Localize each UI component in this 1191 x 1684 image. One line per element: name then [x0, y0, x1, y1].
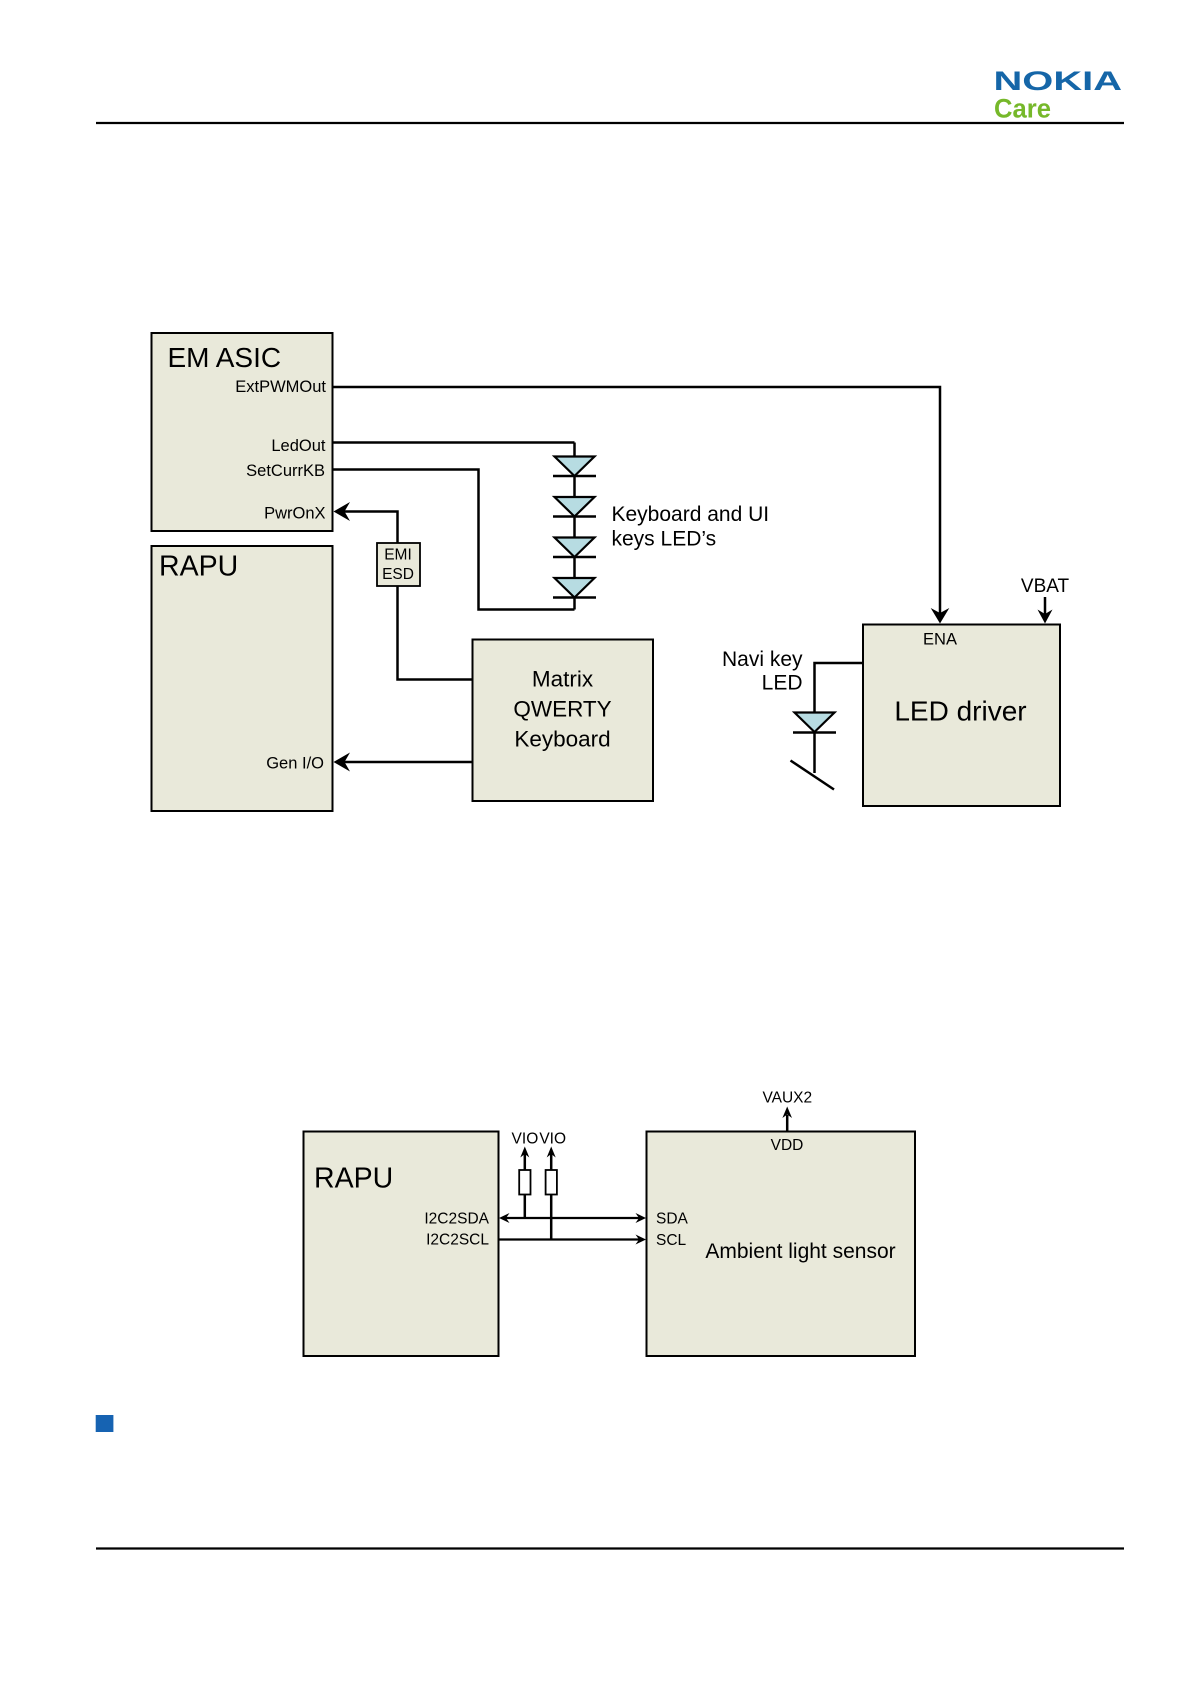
- svg-text:Navi key: Navi key: [722, 648, 803, 671]
- wire SDA bus: [499, 1213, 646, 1223]
- LED D3: [553, 538, 596, 558]
- wire keyboard to Gen I/O: [334, 753, 473, 772]
- svg-text:RAPU: RAPU: [314, 1163, 393, 1195]
- wire LedOut to LED chain: [333, 441, 575, 444]
- LED D1: [553, 457, 596, 477]
- wire SCL bus: [499, 1235, 647, 1245]
- svg-text:LedOut: LedOut: [271, 437, 326, 455]
- svg-text:Ambient light sensor: Ambient light sensor: [705, 1240, 895, 1263]
- svg-text:EM ASIC: EM ASIC: [168, 342, 282, 373]
- section bullet: [96, 1415, 114, 1432]
- block Ambient light sensor: [647, 1132, 916, 1357]
- wire PwrOnX from EMI ESD: [334, 502, 398, 543]
- wire ExtPWMOut to LED driver ENA: [333, 387, 950, 624]
- LED D4: [553, 578, 596, 598]
- svg-text:SetCurrKB: SetCurrKB: [246, 462, 325, 480]
- svg-text:SDA: SDA: [656, 1211, 689, 1228]
- footer rule: [96, 1547, 1124, 1549]
- header rule: [96, 122, 1124, 124]
- svg-text:LED driver: LED driver: [894, 696, 1026, 727]
- resistor R1 pull-up SDA: [519, 1147, 530, 1220]
- svg-text:LED: LED: [762, 672, 803, 695]
- block EM ASIC: [152, 333, 333, 531]
- svg-text:Keyboard and UI: Keyboard and UI: [612, 503, 770, 526]
- svg-text:SCL: SCL: [656, 1232, 687, 1249]
- svg-text:VIO: VIO: [539, 1131, 566, 1148]
- svg-text:VDD: VDD: [771, 1137, 804, 1154]
- svg-text:QWERTY: QWERTY: [513, 697, 611, 722]
- block RAPU (bottom): [304, 1132, 499, 1357]
- svg-text:VAUX2: VAUX2: [762, 1090, 812, 1107]
- wire SetCurrKB to LED chain bottom: [333, 470, 575, 610]
- svg-text:keys LED’s: keys LED’s: [612, 528, 717, 551]
- svg-text:PwrOnX: PwrOnX: [264, 505, 325, 523]
- block RAPU (top): [152, 546, 333, 811]
- label Navi key LED: [722, 648, 803, 695]
- block LED driver: [863, 625, 1060, 807]
- svg-text:I2C2SDA: I2C2SDA: [424, 1211, 489, 1228]
- svg-text:Matrix: Matrix: [532, 667, 594, 692]
- wire EMI ESD to keyboard: [398, 586, 473, 680]
- svg-text:RAPU: RAPU: [159, 551, 238, 583]
- svg-text:Keyboard: Keyboard: [514, 727, 610, 752]
- navi LED: [793, 713, 836, 774]
- svg-text:ESD: ESD: [382, 566, 414, 583]
- VBAT supply: [1021, 576, 1070, 624]
- label Keyboard and UI keys LED's: [612, 503, 770, 551]
- block Matrix QWERTY Keyboard: [473, 640, 654, 802]
- ground stroke: [791, 761, 835, 790]
- svg-text:VIO: VIO: [512, 1131, 539, 1148]
- svg-text:NOKIA: NOKIA: [994, 66, 1123, 96]
- svg-text:VBAT: VBAT: [1021, 576, 1070, 597]
- wire LED chain vertical: [573, 443, 576, 610]
- Nokia Care logo: [994, 66, 1123, 124]
- svg-text:Care: Care: [994, 94, 1051, 124]
- svg-text:I2C2SCL: I2C2SCL: [426, 1232, 489, 1249]
- resistor R2 pull-up SCL: [546, 1147, 557, 1241]
- VAUX2 supply: [762, 1090, 812, 1132]
- svg-text:ExtPWMOut: ExtPWMOut: [235, 378, 326, 396]
- LED D2: [553, 497, 596, 517]
- svg-text:EMI: EMI: [384, 547, 412, 564]
- svg-text:ENA: ENA: [923, 631, 957, 649]
- svg-text:Gen I/O: Gen I/O: [266, 755, 324, 773]
- wire navi key LED: [815, 663, 864, 713]
- EMI ESD filter: [377, 543, 420, 586]
